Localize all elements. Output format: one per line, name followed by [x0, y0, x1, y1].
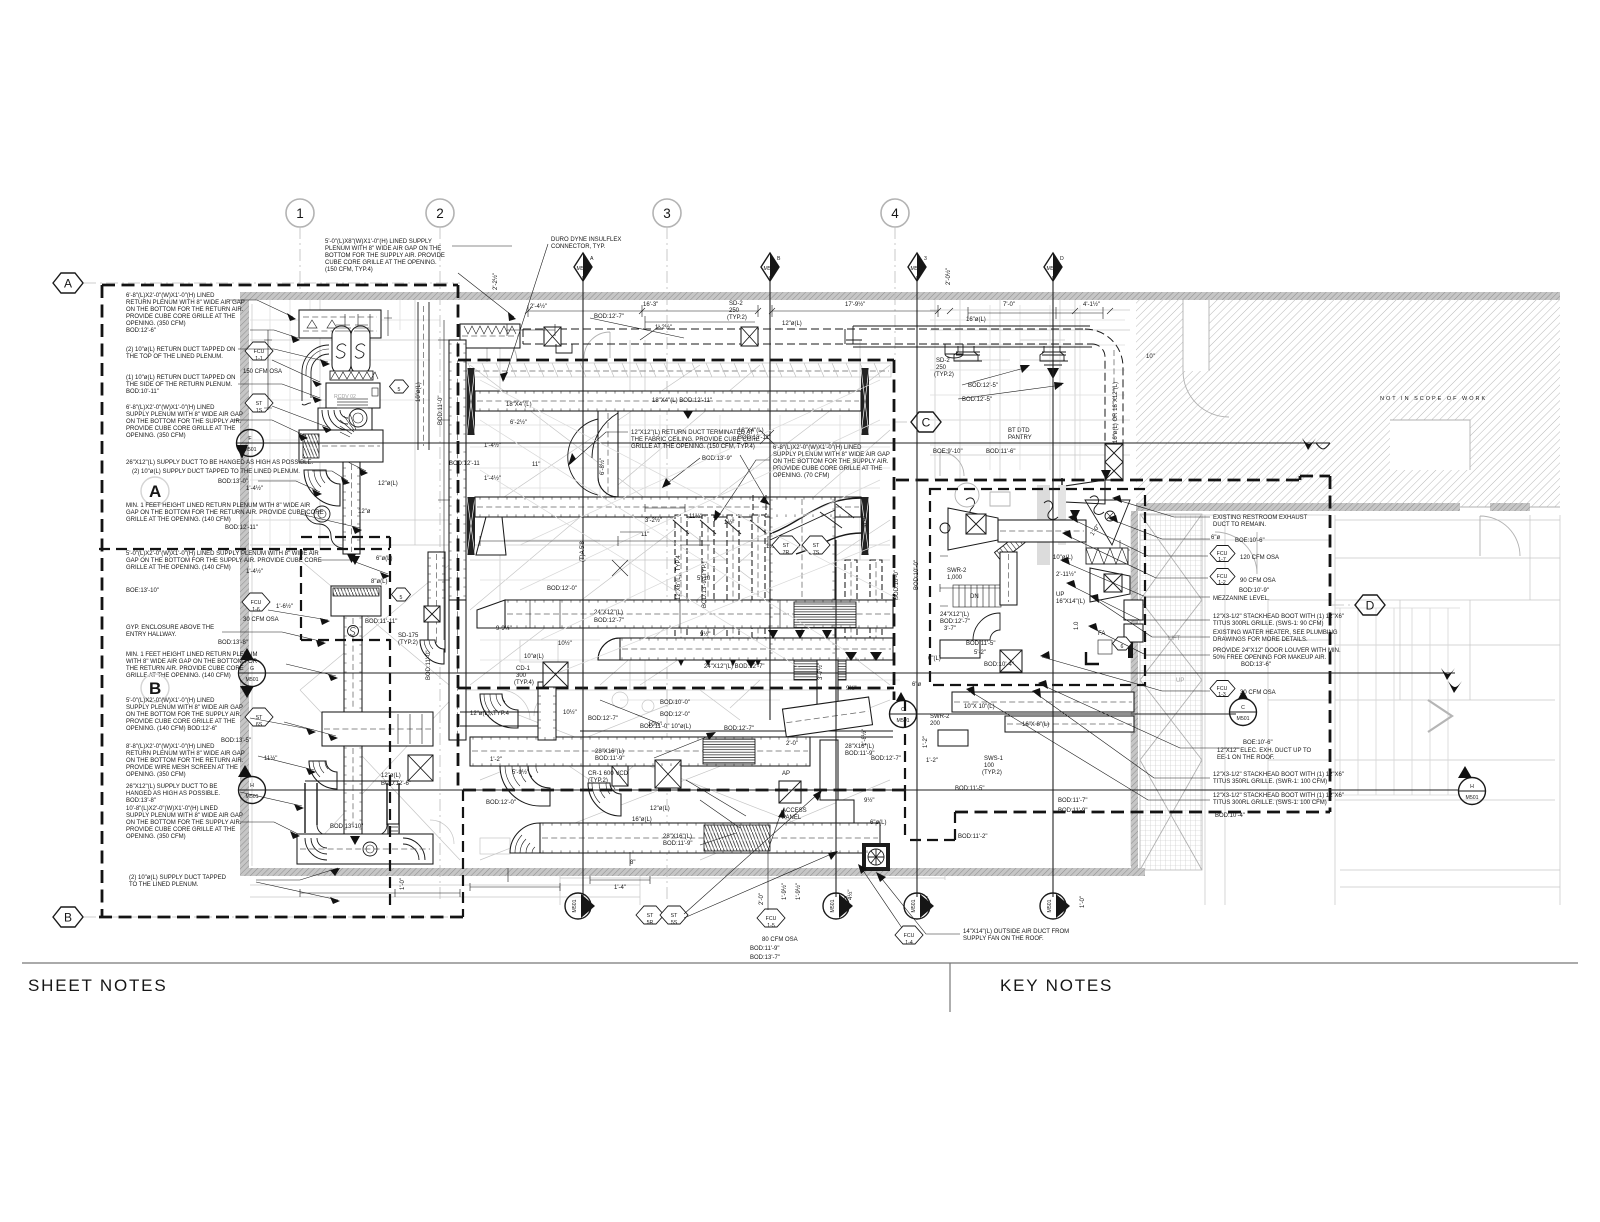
damper on T1 right — [741, 327, 758, 346]
svg-text:BOD:11'-11": BOD:11'-11" — [365, 619, 397, 625]
svg-text:200: 200 — [930, 721, 941, 727]
svg-text:ON THE BOTTOM FOR THE SUPPLY A: ON THE BOTTOM FOR THE SUPPLY AIR. — [126, 712, 242, 718]
svg-text:12"ø(L): 12"ø(L) — [650, 806, 670, 812]
svg-text:5'-0"(L)X8"(W)X1'-0"(H) LINED: 5'-0"(L)X8"(W)X1'-0"(H) LINED SUPPLY — [325, 239, 432, 245]
svg-text:A: A — [149, 482, 161, 501]
svg-text:2'-0": 2'-0" — [759, 893, 765, 905]
interior faint texture — [250, 300, 1125, 700]
svg-text:6'-8"(L)X2'-0"(W)X1'-0"(H) LIN: 6'-8"(L)X2'-0"(W)X1'-0"(H) LINED — [773, 445, 862, 451]
svg-text:1: 1 — [296, 206, 304, 221]
svg-text:6S: 6S — [256, 722, 263, 728]
svg-text:SD-2: SD-2 — [729, 301, 743, 307]
vertical section line B top — [769, 276, 771, 720]
T4 left drop — [476, 517, 506, 555]
svg-text:WITH 8" WIDE AIR GAP ON THE BO: WITH 8" WIDE AIR GAP ON THE BOTTOM FOR — [126, 659, 258, 665]
BOUND — [99, 285, 1330, 917]
svg-text:6"ø: 6"ø — [1211, 535, 1220, 541]
flag marker D top — [1044, 253, 1064, 281]
svg-text:ENTRY HALLWAY.: ENTRY HALLWAY. — [126, 632, 177, 638]
comb duct 4 — [752, 515, 765, 658]
svg-text:3'-6": 3'-6" — [862, 514, 868, 526]
svg-text:1'-6½": 1'-6½" — [276, 603, 293, 610]
mid wide plenum — [322, 712, 433, 746]
SECTIONS — [53, 253, 1486, 927]
svg-text:GRILLE AT THE OPENING. (140 CF: GRILLE AT THE OPENING. (140 CFM) — [126, 673, 231, 679]
svg-text:7'-0": 7'-0" — [1003, 302, 1015, 308]
svg-text:(TYP.4): (TYP.4) — [514, 680, 534, 686]
svg-text:16'-3": 16'-3" — [643, 302, 658, 308]
10 dia run above K1 — [580, 731, 893, 737]
HATCHZONE — [1136, 299, 1560, 507]
corner L mark — [1086, 652, 1099, 664]
svg-text:1'-9½": 1'-9½" — [795, 883, 802, 900]
hexagon A — [53, 273, 83, 293]
svg-text:BOD:13'-6": BOD:13'-6" — [1241, 662, 1271, 668]
svg-text:2'-0½": 2'-0½" — [945, 268, 952, 285]
stair treads far right — [1335, 608, 1460, 795]
svg-text:FCU: FCU — [766, 916, 777, 922]
TITLE — [22, 963, 1578, 1012]
svg-text:ST: ST — [783, 543, 790, 549]
svg-text:BOD:11'-5": BOD:11'-5" — [955, 786, 985, 792]
bottom long plenum — [297, 834, 433, 864]
svg-text:1'-2": 1'-2" — [926, 758, 938, 764]
grid line B — [84, 916, 463, 918]
UNDERLAY — [248, 300, 1560, 905]
svg-text:9-9½": 9-9½" — [496, 625, 512, 632]
S-trap shape — [305, 510, 343, 548]
svg-text:4½": 4½" — [847, 890, 854, 900]
svg-text:BOD:12'-7": BOD:12'-7" — [594, 618, 624, 624]
return drop to comb4 — [753, 495, 766, 515]
svg-text:SD-2: SD-2 — [936, 358, 950, 364]
vertical section line A — [582, 276, 584, 897]
svg-text:TITUS 300RL GRILLE. (SWS-1: 10: TITUS 300RL GRILLE. (SWS-1: 100 CFM) — [1213, 800, 1327, 806]
svg-text:100: 100 — [984, 763, 995, 769]
horizontal run H1 24x12 — [505, 600, 893, 628]
riser bend between K1 K2 — [588, 783, 621, 816]
svg-text:26"X12"(L) SUPPLY DUCT TO BE H: 26"X12"(L) SUPPLY DUCT TO BE HANGED AS H… — [126, 460, 313, 466]
section line G horizontal — [264, 672, 1455, 674]
central box top — [458, 359, 894, 362]
faint building interior lines — [248, 300, 1136, 868]
svg-text:M501: M501 — [911, 266, 924, 272]
exhaust cone 2 — [1090, 568, 1130, 602]
faint lines below building — [250, 868, 640, 905]
svg-text:6"ø(L): 6"ø(L) — [870, 820, 886, 826]
svg-text:CUBE CORE GRILLE AT THE OPENIN: CUBE CORE GRILLE AT THE OPENING. — [325, 260, 437, 266]
svg-text:BOD:11'-7": BOD:11'-7" — [1058, 798, 1088, 804]
svg-text:30 CFM OSA: 30 CFM OSA — [1240, 690, 1276, 696]
svg-text:5: 5 — [398, 387, 401, 393]
flag marker A bottom — [565, 893, 595, 919]
svg-text:PROVIDE 24"X12" DOOR LOUVER WI: PROVIDE 24"X12" DOOR LOUVER WITH MIN. — [1213, 648, 1341, 654]
leader 70cfm note — [716, 460, 770, 520]
SWR boxes — [940, 640, 980, 658]
grille bar upper-right — [861, 368, 869, 435]
svg-text:D: D — [1060, 256, 1064, 262]
svg-text:DN: DN — [970, 594, 979, 600]
T1 riser bottom with braces — [1105, 444, 1123, 480]
T1 takeoff boots — [945, 344, 963, 358]
section line F horizontal — [264, 442, 1316, 444]
svg-text:BOD:10'-0": BOD:10'-0" — [914, 560, 920, 590]
svg-text:8"ø(L): 8"ø(L) — [371, 579, 387, 585]
svg-text:A: A — [64, 277, 72, 291]
ceiling band T2 — [463, 363, 891, 377]
extra ticks along H1 — [530, 600, 780, 628]
left vertical duct along hallway — [449, 340, 466, 600]
svg-text:DURO DYNE INSULFLEX: DURO DYNE INSULFLEX — [551, 237, 621, 243]
svg-text:THE SIDE OF THE RETURN PLENUM.: THE SIDE OF THE RETURN PLENUM. — [126, 382, 233, 388]
svg-text:PROVIDE WIRE MESH SCREEN AT TH: PROVIDE WIRE MESH SCREEN AT THE — [126, 765, 238, 771]
svg-text:250: 250 — [936, 365, 947, 371]
leader top plenum note — [458, 273, 514, 317]
elbow cluster below CD-1 — [538, 682, 556, 740]
svg-text:CONNECTOR, TYP.: CONNECTOR, TYP. — [551, 244, 606, 250]
extra box near (845,337) riser pair — [846, 340, 862, 344]
flag marker B bottom — [823, 893, 853, 919]
radial fan small — [340, 414, 356, 437]
svg-text:BOD:12'-6": BOD:12'-6" — [126, 328, 156, 334]
flex connector spirals — [318, 408, 372, 452]
circle marker C right — [1230, 690, 1257, 726]
interior wall right of main space — [1131, 511, 1138, 871]
svg-text:3: 3 — [663, 206, 671, 221]
svg-text:HANGED AS HIGH AS POSSIBLE.: HANGED AS HIGH AS POSSIBLE. — [126, 791, 220, 797]
grid bubble 4 — [881, 199, 909, 227]
svg-text:SWR-2: SWR-2 — [930, 714, 950, 720]
bottom labels — [636, 906, 664, 924]
lower run boundary — [463, 789, 905, 792]
svg-text:ACCESS: ACCESS — [782, 808, 807, 814]
svg-text:BOD:12'-5": BOD:12'-5" — [968, 383, 998, 389]
svg-text:1-1: 1-1 — [255, 356, 263, 362]
zigzag lined strip — [1086, 548, 1128, 564]
svg-text:1'-9½": 1'-9½" — [781, 883, 788, 900]
svg-text:1-3: 1-3 — [1218, 692, 1226, 698]
leader note4 — [232, 420, 306, 436]
X box small — [1000, 650, 1022, 672]
zone A box top edge — [102, 284, 458, 287]
svg-text:RETURN PLENUM WITH 8" WIDE AIR: RETURN PLENUM WITH 8" WIDE AIR GAP — [126, 751, 245, 757]
faint ceiling diagonals — [470, 365, 890, 685]
leader note14 — [256, 868, 338, 900]
zone B bottom edge — [99, 916, 463, 919]
svg-text:SWS-1: SWS-1 — [984, 756, 1004, 762]
svg-text:9½": 9½" — [846, 685, 856, 692]
comb duct 2 — [702, 515, 714, 658]
svg-text:1.0: 1.0 — [1074, 621, 1080, 630]
circle marker G — [239, 648, 266, 698]
svg-text:10": 10" — [1146, 354, 1155, 360]
svg-text:TO THE LINED PLENUM.: TO THE LINED PLENUM. — [129, 882, 199, 888]
small crosses in central area — [612, 430, 774, 576]
svg-text:UP: UP — [1056, 592, 1064, 598]
svg-text:12"X3-1/2" STACKHEAD BOOT WITH: 12"X3-1/2" STACKHEAD BOOT WITH (1) 12"X6… — [1213, 772, 1344, 778]
svg-text:FCU: FCU — [254, 349, 265, 355]
svg-text:11½": 11½" — [264, 755, 277, 762]
central box bottom — [458, 687, 894, 690]
right zone extra ticks — [940, 540, 1120, 606]
CLUSTERS — [297, 310, 1143, 864]
inner restroom box — [930, 489, 1145, 685]
svg-text:BOD:11'-6": BOD:11'-6" — [986, 449, 1016, 455]
FCU1-1 coil cans — [332, 326, 351, 374]
svg-text:16"ø(L): 16"ø(L) — [966, 317, 986, 323]
svg-text:5S: 5S — [671, 920, 678, 926]
svg-text:5'-0"(L)X2'-0"(W)X1'-0"(H) LIN: 5'-0"(L)X2'-0"(W)X1'-0"(H) LINED — [126, 698, 215, 704]
svg-text:1S: 1S — [256, 408, 263, 414]
LEADERS — [222, 244, 1240, 934]
svg-text:GYP. ENCLOSURE ABOVE THE: GYP. ENCLOSURE ABOVE THE — [126, 625, 214, 631]
svg-text:8'-8"(L)X2'-0"(W)X1'-0"(H) LIN: 8'-8"(L)X2'-0"(W)X1'-0"(H) LINED — [126, 744, 215, 750]
H1 hatched lined section — [794, 602, 856, 628]
top dimension string — [528, 311, 1103, 313]
leader gyp — [222, 632, 324, 642]
vertical section line 3 — [916, 276, 918, 897]
svg-text:EXISTING RESTROOM EXHAUST: EXISTING RESTROOM EXHAUST — [1213, 515, 1308, 521]
VCD box — [612, 766, 628, 786]
T3 to T4 drop elbow — [598, 411, 618, 497]
svg-text:4'-1½": 4'-1½" — [1083, 301, 1100, 308]
svg-text:BOE:9'-10": BOE:9'-10" — [933, 449, 963, 455]
ribbed box below H2 — [794, 660, 846, 680]
svg-text:M501: M501 — [764, 266, 777, 272]
svg-text:150 CFM OSA: 150 CFM OSA — [243, 369, 282, 375]
svg-text:BOE:10'-6": BOE:10'-6" — [1235, 538, 1265, 544]
duct run 10x10 — [952, 692, 1134, 712]
circle marker H left — [238, 765, 266, 804]
left exterior wall — [240, 292, 249, 875]
svg-text:30 CFM OSA: 30 CFM OSA — [243, 617, 279, 623]
leader note5 — [330, 462, 366, 471]
svg-text:CR-1 600 VCD: CR-1 600 VCD — [588, 771, 629, 777]
svg-text:OPENING. (350 CFM): OPENING. (350 CFM) — [126, 321, 186, 327]
svg-text:BOD:10'-4": BOD:10'-4" — [1215, 813, 1245, 819]
svg-text:M501: M501 — [897, 718, 910, 724]
big quarter bend down-left — [304, 470, 340, 506]
svg-text:ST: ST — [256, 401, 263, 407]
svg-text:GRILLE AT THE OPENING. (140 CF: GRILLE AT THE OPENING. (140 CFM) — [126, 517, 231, 523]
bottom dim ticks — [590, 876, 650, 884]
svg-text:GAP ON THE BOTTOM FOR THE SUPP: GAP ON THE BOTTOM FOR THE SUPPLY AIR. PR… — [126, 558, 322, 564]
svg-text:6'-2½": 6'-2½" — [510, 419, 527, 426]
svg-text:5'-9½": 5'-9½" — [512, 769, 529, 776]
fabric ceiling thin fan lines — [480, 380, 900, 672]
plumbing wall gray — [1037, 485, 1050, 565]
svg-text:6: 6 — [1121, 644, 1124, 650]
svg-text:26"X12"(L) SUPPLY DUCT TO BE: 26"X12"(L) SUPPLY DUCT TO BE — [126, 784, 217, 790]
hallway box verticals — [300, 549, 302, 640]
dim ticks right cluster — [940, 584, 1000, 592]
grid line A — [84, 282, 460, 284]
FCU1-1 unit body — [326, 383, 380, 408]
s-flex glyphs — [966, 496, 1104, 520]
svg-text:5'-0"(L)X2'-0"(W)X1'-0"(H) LIN: 5'-0"(L)X2'-0"(W)X1'-0"(H) LINED SUPPLY … — [126, 551, 319, 557]
svg-text:PROVIDE CUBE CORE GRILLE AT TH: PROVIDE CUBE CORE GRILLE AT THE — [773, 466, 882, 472]
svg-text:1'-4½": 1'-4½" — [246, 568, 263, 575]
section line H horizontal — [264, 789, 1458, 791]
hexagon tag 5a — [390, 380, 409, 393]
leader note13 — [240, 822, 298, 834]
svg-text:6'-8"(L)X2'-0"(W)X1'-0"(H) LIN: 6'-8"(L)X2'-0"(W)X1'-0"(H) LINED — [126, 293, 215, 299]
svg-text:GRILLE AT THE OPENING. (140 CF: GRILLE AT THE OPENING. (140 CFM) — [126, 565, 231, 571]
svg-text:MEZZANINE LEVEL.: MEZZANINE LEVEL. — [1213, 596, 1270, 602]
vertical duct to roof unit — [817, 660, 838, 710]
mid horizontal dim line — [480, 536, 768, 546]
svg-text:MIN. 1 FEET HEIGHT LINED RETUR: MIN. 1 FEET HEIGHT LINED RETURN PLENUM — [126, 652, 257, 658]
duct stub below K2 — [836, 800, 854, 823]
zone B top divider — [99, 548, 390, 550]
svg-text:10½": 10½" — [558, 640, 572, 647]
black jamb bar — [1128, 640, 1133, 658]
svg-text:6'-8"(L)X2'-0"(W)X1'-0"(H) LIN: 6'-8"(L)X2'-0"(W)X1'-0"(H) LINED — [126, 405, 215, 411]
svg-text:H: H — [250, 783, 254, 789]
svg-text:EXISTING WATER HEATER, SEE PLU: EXISTING WATER HEATER, SEE PLUMBING — [1213, 630, 1338, 636]
svg-text:PLENUM WITH 8" WIDE AIR GAP ON: PLENUM WITH 8" WIDE AIR GAP ON THE — [325, 246, 441, 252]
svg-text:90 CFM OSA: 90 CFM OSA — [1240, 578, 1276, 584]
U return loop — [305, 783, 399, 833]
svg-text:DRAWINGS FOR MORE DETAILS.: DRAWINGS FOR MORE DETAILS. — [1213, 637, 1308, 643]
svg-text:(TYP.2): (TYP.2) — [727, 315, 747, 321]
svg-text:2'-0": 2'-0" — [786, 741, 798, 747]
flag marker A top — [574, 253, 594, 281]
svg-text:B: B — [64, 911, 72, 925]
FCU1-1 return plenum — [299, 310, 381, 338]
svg-text:BT DTD: BT DTD — [1008, 428, 1030, 434]
svg-text:BOD:12'-11": BOD:12'-11" — [225, 525, 258, 531]
leader note2 — [238, 349, 328, 362]
svg-text:OPENING. (350 CFM): OPENING. (350 CFM) — [126, 433, 186, 439]
flag marker B top — [761, 253, 781, 281]
top exterior wall band — [240, 292, 1140, 300]
svg-text:BOD:13'-8": BOD:13'-8" — [126, 798, 156, 804]
upper elbow at plenum left — [302, 345, 329, 378]
wc fixtures gray — [955, 483, 1010, 507]
central box right — [893, 360, 896, 700]
DUCTS — [449, 324, 1123, 871]
svg-text:A: A — [590, 256, 594, 262]
leader note9 — [286, 664, 336, 676]
svg-text:(150 CFM, TYP.4): (150 CFM, TYP.4) — [325, 267, 373, 273]
svg-text:BOD:12'-7": BOD:12'-7" — [588, 716, 618, 722]
svg-text:2'-4½": 2'-4½" — [530, 303, 547, 310]
roof supply fan unit — [862, 843, 890, 871]
kitchen run K1 28x16 — [470, 737, 810, 766]
svg-text:(TYP.2): (TYP.2) — [398, 640, 418, 646]
svg-text:12"ø(L): 12"ø(L) — [782, 321, 802, 327]
svg-text:C: C — [1241, 705, 1245, 711]
svg-text:SHEET NOTES: SHEET NOTES — [28, 976, 167, 995]
svg-text:G: G — [250, 666, 254, 672]
circle marker F — [236, 430, 264, 460]
lined supply plenum at T1 start — [460, 324, 520, 348]
svg-text:SD-175: SD-175 — [398, 633, 419, 639]
svg-text:24"X12"(L) BOD:12'-7": 24"X12"(L) BOD:12'-7" — [704, 664, 765, 670]
grille bar lower-right — [861, 497, 869, 555]
svg-text:BOD:10'-0": BOD:10'-0" — [894, 570, 900, 600]
svg-text:SUPPLY FAN ON THE ROOF.: SUPPLY FAN ON THE ROOF. — [963, 936, 1044, 942]
break symbol F — [1316, 442, 1330, 444]
svg-text:SUPPLY PLENUM WITH 8" WIDE AIR: SUPPLY PLENUM WITH 8" WIDE AIR GAP — [126, 705, 243, 711]
svg-text:5'-2": 5'-2" — [974, 650, 986, 656]
svg-text:KEY NOTES: KEY NOTES — [1000, 976, 1113, 995]
leader BOD lines central — [664, 458, 700, 486]
svg-text:PROVIDE CUBE CORE GRILLE AT TH: PROVIDE CUBE CORE GRILLE AT THE — [126, 827, 235, 833]
svg-text:SUPPLY PLENUM WITH 8" WIDE AIR: SUPPLY PLENUM WITH 8" WIDE AIR GAP — [773, 452, 890, 458]
svg-text:10'-8"(L)X2'-0"(W)X1'-0"(H) LI: 10'-8"(L)X2'-0"(W)X1'-0"(H) LINED — [126, 806, 219, 812]
svg-text:12"X3-1/2" STACKHEAD BOOT WITH: 12"X3-1/2" STACKHEAD BOOT WITH (1) 12"X6… — [1213, 793, 1344, 799]
svg-text:2'-2½": 2'-2½" — [492, 273, 499, 290]
leader st6s — [284, 722, 336, 736]
right arrow glyph — [1428, 700, 1452, 732]
svg-text:TITUS 300RL GRILLE. (SWS-1: 90: TITUS 300RL GRILLE. (SWS-1: 90 CFM) — [1213, 621, 1323, 627]
svg-text:M501: M501 — [1047, 899, 1053, 912]
big cone fan right — [1085, 500, 1130, 545]
svg-text:C: C — [901, 707, 905, 713]
svg-text:OPENING. (350 CFM): OPENING. (350 CFM) — [126, 834, 186, 840]
svg-text:300: 300 — [516, 673, 527, 679]
T1 elbow down right — [1085, 329, 1123, 470]
trunk top elbow to grille — [770, 498, 862, 554]
leader fcu11 — [272, 360, 320, 382]
svg-text:18"X4"(L) BOD:12'-11": 18"X4"(L) BOD:12'-11" — [652, 398, 712, 404]
svg-text:BOD:10'-0": BOD:10'-0" — [660, 700, 690, 706]
leader duro dyne — [504, 244, 548, 380]
svg-text:GRILLE AT THE OPENING. (150 CF: GRILLE AT THE OPENING. (150 CFM, TYP.4) — [631, 444, 755, 450]
mid vertical duct — [1000, 552, 1017, 605]
svg-text:28"X16"(L): 28"X16"(L) — [595, 749, 624, 755]
svg-text:1'-4½": 1'-4½" — [246, 485, 263, 492]
svg-text:TITUS 350RL GRILLE. (SWR-1: 10: TITUS 350RL GRILLE. (SWR-1: 100 CFM) — [1213, 779, 1327, 785]
leader note10 — [250, 718, 314, 730]
svg-text:(TYP.2): (TYP.2) — [934, 372, 954, 378]
svg-text:BOD:10'-4": BOD:10'-4" — [984, 662, 1014, 668]
top main supply run T1 — [523, 329, 1092, 344]
svg-text:1'-4½": 1'-4½" — [484, 442, 501, 449]
left vertical duct lower — [449, 600, 466, 740]
far right rooms faint — [1335, 515, 1560, 905]
quarter bends left — [309, 761, 337, 789]
svg-text:1'-4½": 1'-4½" — [484, 475, 501, 482]
long vertical at grid of zone A right — [457, 285, 460, 790]
svg-text:10½": 10½" — [563, 709, 577, 716]
svg-text:12"X3-1/2" STACKHEAD BOOT WITH: 12"X3-1/2" STACKHEAD BOOT WITH (1) 12"X6… — [1213, 614, 1344, 620]
access panel AP — [779, 781, 801, 803]
angled ribbed flex — [994, 534, 1024, 561]
hexagon D — [1355, 595, 1385, 615]
run T4 18x4 lower — [475, 497, 861, 517]
upper plenum — [331, 586, 381, 616]
svg-text:3: 3 — [925, 896, 928, 902]
right zone top — [896, 476, 1330, 480]
svg-text:M501: M501 — [246, 677, 259, 683]
svg-text:6'-8½": 6'-8½" — [599, 458, 606, 475]
down arrow right — [1101, 470, 1111, 480]
svg-text:50% FREE OPENING FOR MAKEUP AI: 50% FREE OPENING FOR MAKEUP AIR. — [1213, 655, 1327, 661]
svg-text:28"X16"(L): 28"X16"(L) — [663, 834, 692, 840]
svg-text:3'-2½": 3'-2½" — [645, 517, 662, 524]
svg-text:BOD:13'-9"(TYP.): BOD:13'-9"(TYP.) — [702, 561, 708, 608]
svg-text:BOD:12'-6": BOD:12'-6" — [381, 781, 411, 787]
flag marker 3 top — [908, 253, 927, 281]
svg-text:12"ø(L), TYP.4: 12"ø(L), TYP.4 — [470, 711, 510, 717]
svg-text:(2) 10"ø(L) RETURN DUCT TAPPED: (2) 10"ø(L) RETURN DUCT TAPPED ON — [126, 347, 235, 353]
ST 1S tag — [245, 394, 273, 412]
grid bubble 1 — [286, 199, 314, 227]
svg-text:PANEL: PANEL — [782, 815, 802, 821]
